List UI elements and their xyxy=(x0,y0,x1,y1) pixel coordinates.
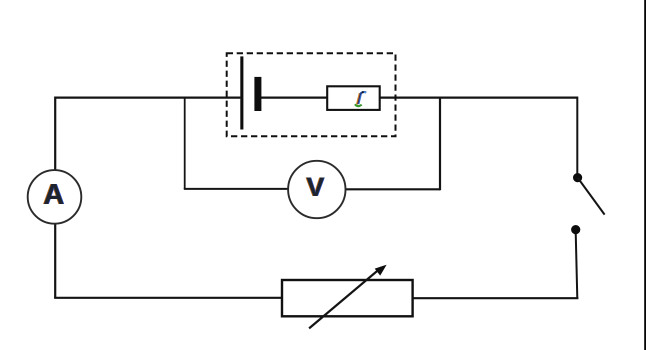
page right edge border line xyxy=(644,0,646,350)
ammeter label A xyxy=(42,179,65,211)
wire right vertical lower xyxy=(576,232,578,298)
wire voltmeter branch right vertical riser xyxy=(439,97,441,191)
wire left vertical upper xyxy=(54,97,56,171)
svg-text:V: V xyxy=(306,172,324,202)
voltmeter V circle xyxy=(288,161,345,218)
wire bottom right horizontal xyxy=(413,297,579,299)
switch lower contact dot xyxy=(571,225,580,234)
resistor r box (internal resistance) xyxy=(327,86,380,110)
dashed cell boundary box xyxy=(227,53,396,136)
rheostat arrow head xyxy=(375,265,387,276)
wire bottom left horizontal xyxy=(54,297,282,299)
voltmeter label V xyxy=(305,172,325,202)
wire top-left horizontal xyxy=(55,96,240,98)
wire right vertical upper xyxy=(576,97,578,175)
node junction branch to voltmeter: vertical drop xyxy=(184,98,186,189)
wire resistor to top-right corner xyxy=(380,96,577,98)
rheostat box xyxy=(282,280,413,316)
rheostat arrow shaft xyxy=(309,267,381,328)
wire battery to internal resistor xyxy=(261,96,327,98)
wire left vertical lower xyxy=(54,223,56,298)
label r (script, colour-fringed) xyxy=(355,91,366,106)
switch upper contact dot xyxy=(573,173,582,182)
battery short thick plate xyxy=(254,77,261,111)
wire voltmeter branch left horizontal xyxy=(184,188,288,190)
wire voltmeter branch right horizontal xyxy=(345,188,440,190)
battery long plate xyxy=(240,56,243,129)
switch blade xyxy=(578,178,605,215)
ammeter A circle xyxy=(28,170,82,224)
svg-text:A: A xyxy=(43,179,64,211)
